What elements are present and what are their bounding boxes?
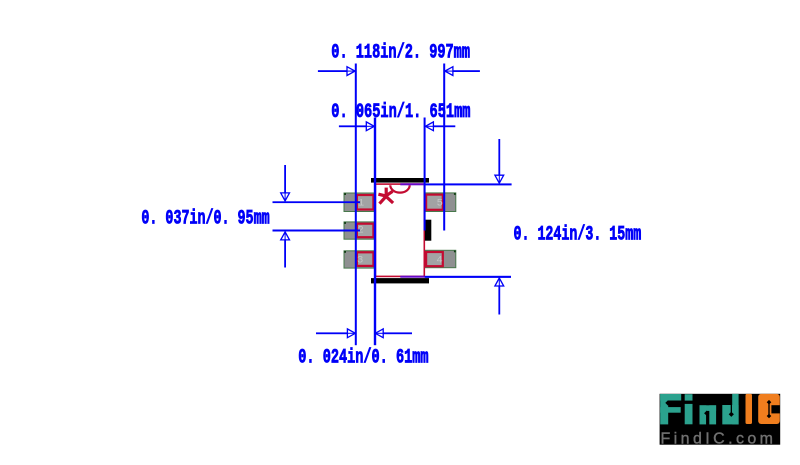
lead length dim left shaft	[316, 332, 348, 334]
extension line V1	[355, 64, 357, 346]
body bottom edge black bar	[371, 278, 429, 283]
pitch dim upper extension line	[284, 165, 286, 193]
svg-text:4: 4	[436, 254, 442, 266]
svg-text:0. 037in/0. 95mm: 0. 037in/0. 95mm	[141, 208, 269, 231]
logo letter C	[758, 394, 780, 424]
pitch dim down arrowhead	[281, 193, 290, 201]
extension line V2	[374, 118, 376, 346]
logo letter d	[722, 394, 738, 425]
package body outline	[375, 184, 424, 276]
pad 1 copper	[344, 193, 374, 212]
pin 3 lead outline	[357, 252, 374, 266]
height dim up arrowhead	[495, 278, 504, 286]
pin 5 lead outline	[426, 195, 443, 210]
pad 2 copper	[344, 222, 374, 239]
pin 2 lead outline	[357, 224, 374, 238]
pad 4 copper	[425, 250, 456, 267]
blue horizontal line at body bottom	[425, 276, 511, 278]
logo d node diamond and trace	[729, 402, 734, 417]
blue horizontal line at body top	[425, 183, 512, 185]
height dim down arrowhead	[495, 175, 504, 183]
pitch dim lower extension line	[284, 239, 286, 267]
pitch dim line at pad2 center	[273, 230, 361, 232]
lead length dim right arrowhead	[375, 329, 383, 338]
extension line V3	[424, 118, 426, 231]
logo letter F	[660, 394, 681, 424]
svg-text:0. 024in/0. 61mm: 0. 024in/0. 61mm	[298, 346, 428, 369]
body top edge black bar	[371, 178, 429, 183]
logo letter I	[746, 394, 753, 424]
dimension 2.997mm right arrowhead	[445, 67, 453, 76]
svg-text:3: 3	[357, 254, 363, 266]
dimension 1.651mm right arrowhead	[425, 122, 433, 131]
dimension 2.997mm right shaft	[445, 70, 480, 72]
svg-text:0. 065in/1. 651mm: 0. 065in/1. 651mm	[331, 101, 470, 124]
height dim upper extension line	[498, 139, 500, 176]
dimension 1.651mm right shaft	[433, 125, 456, 127]
svg-text:0. 118in/2. 997mm: 0. 118in/2. 997mm	[331, 42, 470, 65]
purple overlap segment bottom	[400, 276, 424, 278]
dimension 2.997mm left shaft	[318, 70, 355, 72]
pitch dim up arrowhead	[281, 232, 290, 240]
pin1 orientation notch arc	[390, 185, 409, 192]
purple overlap segment top	[400, 183, 424, 185]
pin 4 lead outline	[426, 252, 443, 266]
lead length dim right shaft	[383, 332, 412, 334]
dimension 1.651mm left shaft	[339, 125, 367, 127]
pad 3 copper	[344, 251, 374, 268]
height dim lower extension line	[498, 285, 500, 314]
right side black bar	[425, 220, 431, 241]
svg-text:0. 124in/3. 15mm: 0. 124in/3. 15mm	[514, 223, 642, 246]
lead length dim left arrowhead	[347, 329, 355, 338]
dimension 1.651mm left arrowhead	[366, 122, 374, 131]
pin 1 lead outline	[357, 195, 374, 210]
pin 1 marker asterisk	[378, 188, 393, 204]
logo n node diamond and trace	[704, 411, 709, 425]
pad 5 copper	[425, 193, 456, 212]
logo C node diamonds and trace	[767, 400, 772, 418]
FindIC logo background	[660, 394, 781, 445]
dimension 2.997mm left arrowhead	[347, 67, 355, 76]
svg-text:5: 5	[437, 197, 443, 209]
svg-text:1: 1	[358, 197, 364, 209]
logo F node diamond	[665, 400, 670, 405]
logo letter n	[700, 405, 717, 424]
pitch dim line at pad1 center	[273, 201, 361, 203]
extension line V4	[443, 64, 445, 231]
logo letter i	[685, 394, 693, 424]
